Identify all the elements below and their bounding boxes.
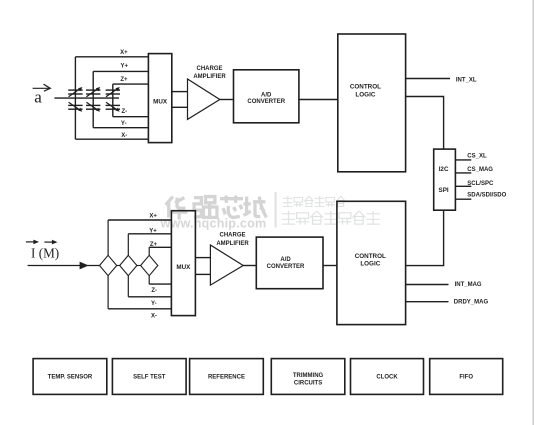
block reference bbox=[190, 359, 264, 395]
svg-text:Z+: Z+ bbox=[150, 242, 158, 248]
block temp sensor bbox=[33, 359, 107, 395]
svg-text:Z+: Z+ bbox=[120, 77, 128, 83]
svg-text:Z-: Z- bbox=[151, 288, 157, 294]
decorative watermark big char 2 bbox=[194, 197, 217, 218]
svg-text:MUX: MUX bbox=[176, 264, 191, 271]
op-amp charge amplifier (accel) bbox=[188, 79, 220, 119]
wire Y sensor bottom lead bbox=[127, 276, 129, 297]
wire Z sensor top lead bbox=[148, 247, 150, 255]
svg-text:Y+: Y+ bbox=[120, 64, 128, 70]
variable capacitor CY+ bbox=[86, 87, 100, 97]
decorative watermark big char 3 bbox=[220, 196, 243, 218]
svg-text:MUX: MUX bbox=[153, 98, 168, 105]
variable capacitor CX+ bbox=[68, 87, 82, 97]
svg-text:a: a bbox=[34, 88, 42, 107]
svg-text:DRDY_MAG: DRDY_MAG bbox=[454, 299, 489, 305]
wire ADC to control logic (mag) bbox=[323, 265, 337, 267]
wire mag input with arrowhead bbox=[28, 262, 100, 270]
block control logic (accel) bbox=[338, 34, 406, 172]
svg-text:CS_XL: CS_XL bbox=[467, 153, 487, 159]
decorative watermark big char 4 bbox=[244, 197, 267, 218]
svg-text:TEMP. SENSOR: TEMP. SENSOR bbox=[48, 375, 93, 381]
wire Z- rail bbox=[113, 116, 149, 118]
wire X+ rail bbox=[75, 56, 148, 58]
svg-text:Y+: Y+ bbox=[149, 228, 157, 234]
block MUX (accel) bbox=[148, 54, 171, 143]
svg-text:CONVERTER: CONVERTER bbox=[267, 264, 305, 270]
svg-text:CONTROL: CONTROL bbox=[355, 253, 386, 260]
wire DRDY_MAG bbox=[406, 301, 449, 303]
svg-text:SPI: SPI bbox=[439, 187, 449, 194]
variable capacitor CX- bbox=[68, 102, 82, 112]
decorative watermark divider bbox=[275, 192, 277, 228]
svg-text:FIFO: FIFO bbox=[459, 375, 473, 381]
svg-text:A/D: A/D bbox=[280, 257, 291, 263]
block FIFO bbox=[430, 359, 503, 395]
wire Z+ rail bbox=[113, 83, 149, 85]
wire MUX to amp lower (mag) bbox=[195, 273, 210, 275]
decorative watermark big char 1 bbox=[166, 197, 188, 220]
svg-text:AMPLIFIER: AMPLIFIER bbox=[216, 241, 249, 247]
wire I2C block to control logic (mag) bbox=[406, 210, 444, 265]
block self test bbox=[112, 359, 186, 395]
wire z+ rail (mag) bbox=[149, 246, 171, 248]
svg-text:X+: X+ bbox=[149, 214, 157, 220]
decorative page border right bbox=[532, 0, 534, 425]
svg-text:CHARGE: CHARGE bbox=[219, 233, 245, 239]
wire z- rail (mag) bbox=[149, 283, 171, 285]
wire X column vertical bbox=[74, 57, 76, 139]
wire Z column vertical bbox=[112, 84, 114, 117]
acceleration vector arrow bbox=[33, 84, 51, 91]
block clock bbox=[351, 359, 424, 395]
svg-text:CONVERTER: CONVERTER bbox=[247, 99, 285, 105]
wire CS_MAG stub bbox=[455, 172, 471, 174]
svg-text:A/D: A/D bbox=[261, 92, 272, 98]
wire Y- rail bbox=[93, 127, 148, 129]
wire INT_MAG bbox=[406, 284, 449, 286]
svg-text:X-: X- bbox=[151, 314, 157, 320]
svg-text:LOGIC: LOGIC bbox=[355, 92, 375, 99]
wire diamond link 1 bbox=[117, 265, 120, 267]
block control logic (mag) bbox=[337, 201, 406, 324]
op-amp charge amplifier (mag) bbox=[210, 245, 243, 285]
block I2C SPI interface bbox=[434, 149, 456, 210]
magnetoresistive sensor bridge X bbox=[100, 255, 117, 275]
current arrow 2 bbox=[44, 240, 57, 245]
block A/D converter (accel) bbox=[234, 70, 299, 123]
svg-text:X+: X+ bbox=[120, 50, 128, 56]
block A/D converter (mag) bbox=[256, 237, 323, 289]
variable capacitor CZ+ bbox=[106, 87, 120, 97]
wire X sensor bottom lead bbox=[107, 276, 109, 309]
svg-text:AMPLIFIER: AMPLIFIER bbox=[193, 74, 226, 80]
wire X sensor top lead bbox=[107, 220, 109, 255]
wire Y+ rail bbox=[93, 70, 148, 72]
wire diamond link 2 bbox=[137, 265, 141, 267]
wire X- rail bbox=[75, 138, 148, 140]
svg-text:SELF TEST: SELF TEST bbox=[133, 375, 166, 381]
magnetoresistive sensor bridge Y bbox=[120, 255, 137, 275]
wire x- rail (mag) bbox=[108, 308, 171, 310]
decorative watermark small text line 1 bbox=[284, 197, 346, 207]
svg-text:www.hqchip.com: www.hqchip.com bbox=[160, 216, 267, 230]
svg-text:CONTROL: CONTROL bbox=[350, 84, 381, 91]
svg-text:CLOCK: CLOCK bbox=[376, 375, 398, 381]
current arrow 1 bbox=[26, 240, 39, 245]
wire ADC to control logic (accel) bbox=[299, 99, 338, 101]
wire x+ rail (mag) bbox=[108, 219, 171, 221]
variable capacitor CY- bbox=[86, 102, 100, 112]
wire Y sensor top lead bbox=[127, 234, 129, 256]
wire MUX to amp lower bbox=[172, 106, 188, 108]
wire CS_XL stub bbox=[455, 159, 471, 161]
wire accel input node bbox=[54, 97, 119, 99]
block trimming circuits bbox=[271, 359, 345, 395]
svg-text:Y-: Y- bbox=[151, 301, 157, 307]
wire y- rail (mag) bbox=[128, 296, 171, 298]
svg-text:INT_MAG: INT_MAG bbox=[455, 282, 482, 288]
wire amp to ADC (accel) bbox=[220, 99, 234, 101]
wire amp to ADC (mag) bbox=[243, 265, 256, 267]
wire MUX to amp upper (mag) bbox=[195, 257, 210, 259]
svg-text:LOGIC: LOGIC bbox=[360, 261, 380, 268]
svg-text:INT_XL: INT_XL bbox=[456, 77, 477, 83]
magnetoresistive sensor bridge Z bbox=[141, 255, 158, 275]
wire Y column vertical bbox=[92, 71, 94, 127]
wire Z sensor bottom lead bbox=[148, 276, 150, 284]
svg-text:X-: X- bbox=[121, 133, 127, 139]
variable capacitor CZ- bbox=[106, 102, 120, 112]
svg-text:CIRCUITS: CIRCUITS bbox=[294, 381, 322, 387]
wire SCL/SPC stub bbox=[455, 185, 471, 187]
svg-text:SDA/SDI/SDO: SDA/SDI/SDO bbox=[467, 193, 506, 199]
svg-text:TRIMMING: TRIMMING bbox=[293, 373, 324, 379]
wire SDA/SDI/SDO stub bbox=[455, 198, 471, 200]
wire y+ rail (mag) bbox=[128, 233, 171, 235]
svg-text:Z-: Z- bbox=[122, 109, 128, 115]
svg-text:I (M): I (M) bbox=[31, 246, 59, 261]
svg-text:SCL/SPC: SCL/SPC bbox=[467, 181, 494, 187]
block MUX (mag) bbox=[171, 211, 195, 316]
wire INT_XL bbox=[406, 78, 450, 80]
svg-text:REFERENCE: REFERENCE bbox=[208, 375, 245, 381]
decorative watermark small text line 2 bbox=[283, 212, 380, 225]
wire MUX to amp upper bbox=[172, 91, 188, 93]
svg-text:CHARGE: CHARGE bbox=[196, 66, 222, 72]
svg-text:I2C: I2C bbox=[439, 166, 449, 173]
wire control logic to I2C block bbox=[406, 97, 444, 150]
svg-text:Y-: Y- bbox=[121, 121, 127, 127]
svg-text:CS_MAG: CS_MAG bbox=[467, 167, 493, 173]
